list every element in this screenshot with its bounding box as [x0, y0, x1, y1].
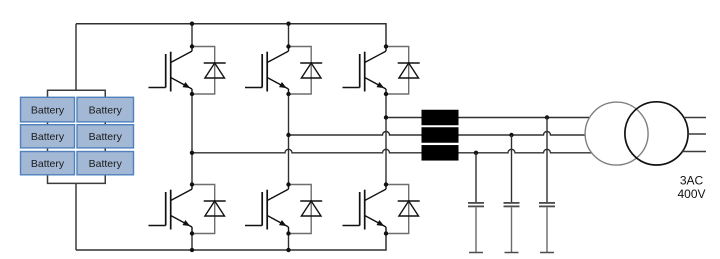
wire leg 3 midpoint vertical — [385, 94, 387, 185]
node collector junction of Q1 (leg 1 high-side) — [190, 44, 194, 48]
wire phase W choke L1 to transformer (cap C3 tap, hop-free) — [459, 117, 590, 119]
node emitter junction of Q1 (leg 1 high-side) — [190, 92, 194, 96]
wire phase V from leg 2 to choke L2 (hops over leg 3) — [289, 132, 422, 136]
svg-text:400V: 400V — [677, 187, 705, 201]
wire freewheel-diode branch of Q3 (leg 3 high-side) — [386, 47, 409, 95]
wire cap C2 lower lead — [511, 207, 513, 252]
wire leg 1 midpoint vertical — [191, 94, 193, 185]
IGBT Q4 (leg 1 low-side) — [149, 185, 193, 234]
wire phase W from leg 3 to choke L1 — [386, 117, 422, 119]
battery B6 — [77, 152, 134, 175]
transformer T1 primary winding — [585, 102, 648, 165]
wire cap C3 upper lead — [546, 118, 548, 203]
wire freewheel-diode branch of Q4 (leg 1 low-side) — [192, 185, 215, 234]
node phase V tap on leg 2 — [286, 133, 290, 137]
wire phase V choke L2 to transformer (hops over C3 lead) — [459, 132, 586, 136]
inductor L2 (line choke, phase V) — [422, 127, 459, 143]
wire grid phase 2 output — [688, 133, 706, 135]
IGBT Q3 (leg 3 high-side) — [343, 47, 387, 95]
ground terminal of C2 — [505, 252, 519, 254]
wire DC- bottom rail — [76, 234, 386, 251]
capacitor C3 (filter cap to earth) — [539, 203, 555, 207]
battery B2 — [77, 97, 134, 122]
diode antiparallel with Q6 (leg 3 low-side) — [398, 201, 420, 216]
node cap C1 tap on phase U — [474, 151, 478, 155]
svg-text:Battery: Battery — [31, 158, 65, 170]
wire battery inter-cell links left column — [47, 122, 49, 152]
capacitor C2 (filter cap to earth) — [504, 203, 520, 207]
diode antiparallel with Q3 (leg 3 high-side) — [398, 63, 420, 78]
node emitter junction of Q3 (leg 3 high-side) — [384, 92, 388, 96]
node collector junction of Q6 (leg 3 low-side) — [384, 182, 388, 186]
diode antiparallel with Q1 (leg 1 high-side) — [204, 63, 226, 78]
wire phase U from leg 1 to choke L3 (hops over legs 2,3) — [192, 149, 422, 152]
svg-text:Battery: Battery — [89, 104, 123, 116]
node emitter junction of Q4 (leg 1 low-side) — [190, 231, 194, 235]
node collector junction of Q4 (leg 1 low-side) — [190, 182, 194, 186]
node emitter junction of Q2 (leg 2 high-side) — [286, 92, 290, 96]
wire grid phase 3 output — [682, 151, 706, 153]
svg-text:Battery: Battery — [89, 131, 123, 143]
wire cap C1 upper lead — [475, 153, 477, 202]
svg-text:Battery: Battery — [31, 104, 65, 116]
node DC+ rail junction leg 2 — [286, 22, 290, 26]
ground terminal of C3 — [540, 252, 554, 254]
wire battery bottom bracket — [48, 175, 106, 250]
svg-text:Battery: Battery — [31, 131, 65, 143]
inductor L3 (line choke, phase U) — [422, 145, 459, 161]
wire battery inter-cell links right column — [104, 122, 106, 152]
wire freewheel-diode branch of Q2 (leg 2 high-side) — [289, 47, 312, 95]
diode antiparallel with Q5 (leg 2 low-side) — [300, 201, 322, 216]
svg-text:3AC: 3AC — [680, 174, 704, 188]
node DC- rail junction leg 2 — [286, 248, 290, 252]
ground terminal of C1 — [469, 252, 483, 254]
wire cap C2 upper lead — [511, 135, 513, 202]
wire leg 1 drop from DC+ rail — [191, 24, 193, 47]
node collector junction of Q2 (leg 2 high-side) — [286, 44, 290, 48]
capacitor C1 (filter cap to earth) — [468, 203, 484, 207]
battery B3 — [21, 125, 75, 148]
wire leg 2 midpoint vertical — [288, 94, 290, 185]
wire freewheel-diode branch of Q5 (leg 2 low-side) — [289, 185, 312, 234]
battery B1 — [21, 97, 75, 122]
node cap C2 tap on phase V — [509, 133, 513, 137]
wire battery top bracket — [48, 24, 106, 98]
diode antiparallel with Q2 (leg 2 high-side) — [300, 63, 322, 78]
diode antiparallel with Q4 (leg 1 low-side) — [204, 201, 226, 216]
wire DC+ top rail — [76, 24, 386, 47]
wire freewheel-diode branch of Q6 (leg 3 low-side) — [386, 185, 409, 234]
battery B5 — [21, 152, 75, 175]
node emitter junction of Q5 (leg 2 low-side) — [286, 231, 290, 235]
IGBT Q1 (leg 1 high-side) — [149, 47, 193, 95]
wire phase U choke L3 to transformer (hops over C2, C3 leads) — [459, 149, 592, 152]
IGBT Q2 (leg 2 high-side) — [245, 47, 289, 95]
inductor L1 (line choke, phase W) — [422, 110, 459, 126]
wire grid phase 1 output — [684, 117, 706, 119]
IGBT Q6 (leg 3 low-side) — [343, 185, 387, 234]
wire freewheel-diode branch of Q1 (leg 1 high-side) — [192, 47, 215, 95]
wire leg 2 drop from DC+ rail — [288, 24, 290, 47]
node collector junction of Q5 (leg 2 low-side) — [286, 182, 290, 186]
IGBT Q5 (leg 2 low-side) — [245, 185, 289, 234]
wire cap C1 lower lead — [475, 207, 477, 252]
node DC+ rail junction leg 1 — [190, 22, 194, 26]
wire leg 2 rise to DC- rail — [288, 234, 290, 251]
svg-text:Battery: Battery — [89, 158, 123, 170]
battery B4 — [77, 125, 134, 148]
wire cap C3 lower lead — [546, 207, 548, 252]
node collector junction of Q3 (leg 3 high-side) — [384, 44, 388, 48]
wire leg 1 rise to DC- rail — [191, 234, 193, 251]
transformer T1 secondary winding — [625, 102, 688, 165]
node phase U tap on leg 1 — [190, 151, 194, 155]
node cap C3 tap on phase W — [545, 115, 549, 119]
node DC- rail junction leg 1 — [190, 248, 194, 252]
node emitter junction of Q6 (leg 3 low-side) — [384, 231, 388, 235]
node phase W tap on leg 3 — [384, 115, 388, 119]
